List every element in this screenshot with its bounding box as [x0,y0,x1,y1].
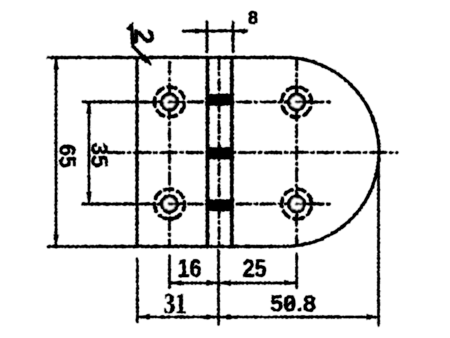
dim 31-50.8 dimension line [137,316,378,318]
hole H1 drilled circle [162,94,177,109]
dim 65 arrow down [54,235,59,247]
svg-text:25: 25 [243,255,267,283]
svg-text:35: 35 [87,143,113,168]
hole H3 center mark [170,203,184,205]
dim 50.8 arrow right [367,315,379,320]
callout leader arrowhead [141,55,152,66]
dim 65 extension line bottom [48,245,137,248]
hole H3 countersink dashed circle [148,183,190,225]
hole H3 drilled circle [162,196,177,211]
svg-text:8: 8 [248,8,258,28]
dim 16 arrow right [207,281,219,286]
dim 16 arrow left [170,281,182,286]
dim 25 arrow left [219,281,231,286]
dim 16-25 dimension line [170,282,297,284]
dim 8 extension line right [232,22,234,52]
hinge-axis extension line below plate [217,250,219,324]
dim 31 extension line left [136,259,138,322]
hole H2 drilled circle [289,94,304,109]
centerline hole-column-2 vertical [295,58,297,246]
svg-text:50.8: 50.8 [270,291,316,317]
hole H2 center mark [297,101,311,103]
dim 65 extension line top [48,56,137,59]
svg-text:65: 65 [55,144,81,168]
hole H1 center mark [170,101,184,103]
dim 8 extension line left [206,22,208,52]
dim 31 arrow right [207,315,219,320]
dim 31 arrow left [137,315,149,320]
dim 50.8 arrow left [219,315,231,320]
callout leader for thickness [129,26,149,62]
dim 25 arrow right [285,281,297,286]
knuckle right line [230,58,233,247]
plate outline [137,58,379,247]
centerline hole-row-1 horizontal [83,101,136,103]
centerline hole-column-1 vertical [168,62,170,246]
dim 65 arrow up [54,58,59,70]
dim 35 arrow down [87,192,92,204]
dim 8 dimension line [183,30,247,32]
dim 8 arrow pointing left [233,29,245,34]
knuckle gap band 2 [206,148,234,159]
dim 8 arrow pointing right [195,29,207,34]
knuckle left line [206,58,209,247]
dim 16 extension line [168,256,170,288]
knuckle gap band 1 [206,94,234,105]
dim 65 dimension line [55,58,57,247]
hole H4 countersink dashed circle [277,185,315,223]
dim 35 arrow up [87,102,92,114]
centerline plate-middle horizontal [108,151,397,153]
centerline hinge-axis vertical [218,58,220,246]
slashed zero mark in 50.8 [286,300,295,308]
svg-text:31: 31 [164,289,187,320]
hole H4 center mark [297,203,311,205]
dim 25 extension line right [296,254,298,288]
svg-text:2: 2 [129,29,160,45]
svg-text:16: 16 [178,255,202,283]
centerline hole-row-2 horizontal [83,203,136,205]
hole H2 countersink dashed circle [276,82,317,123]
dim 35 dimension line [88,102,90,204]
hole H4 drilled circle [289,196,304,211]
knuckle gap band 3 [206,200,234,211]
hole H1 countersink dashed circle [152,84,188,120]
dim 50.8 extension line right [377,158,379,325]
